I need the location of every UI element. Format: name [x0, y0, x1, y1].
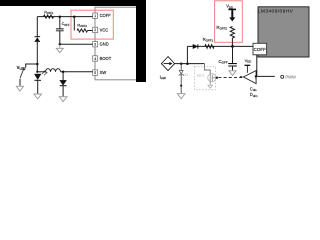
svg-text:LM3409/09HV: LM3409/09HV	[258, 9, 294, 15]
buffer/triangle PWM drive	[243, 71, 256, 84]
black border bar right	[136, 0, 146, 82]
black border bar top	[0, 0, 146, 6]
svg-text:4: 4	[94, 57, 96, 61]
svg-text:2: 2	[94, 28, 96, 32]
diode D1 (up)	[35, 36, 41, 38]
wire: dashed gate drive	[218, 77, 242, 79]
pin COFF box	[253, 43, 267, 55]
node: COFF pin net	[231, 45, 234, 48]
wire: left vertical	[36, 17, 38, 37]
ground (switch)	[16, 86, 23, 91]
terminal PWM	[281, 75, 284, 78]
current source ILED	[161, 57, 174, 71]
wire: ILED to FET	[175, 63, 205, 65]
capacitor COFF	[59, 17, 61, 29]
ground (Coff)	[59, 44, 61, 48]
svg-text:COFF: COFF	[254, 47, 266, 52]
capacitor COFF (right)	[232, 46, 234, 63]
svg-text:ROFF1: ROFF1	[44, 10, 54, 15]
wire: VLED to inductor branch	[36, 64, 38, 72]
node VLED	[36, 63, 39, 66]
node: FET gate	[216, 77, 218, 79]
ic body U1	[95, 7, 145, 80]
node: up-branch tap	[186, 62, 189, 64]
resistor ROFF2 (right)	[230, 27, 234, 39]
svg-text:ROFF1: ROFF1	[203, 37, 214, 43]
svg-text:ILED: ILED	[160, 74, 167, 80]
resistor ROFF1	[44, 15, 54, 18]
LED D2 (down)	[34, 74, 41, 80]
pin 3 GND	[93, 42, 98, 47]
svg-text:5: 5	[94, 71, 96, 75]
pin 2 VCC	[93, 27, 98, 32]
FET dashed box	[195, 67, 216, 90]
ground (LED)	[34, 94, 42, 99]
wire: top net to pin 1 COFF	[37, 16, 93, 18]
node: buffer output	[255, 75, 257, 77]
svg-text:COFF: COFF	[100, 13, 112, 18]
diode D3 (down)	[62, 72, 64, 80]
svg-text:COFF: COFF	[62, 22, 70, 27]
pin 5 SW	[93, 70, 98, 75]
svg-text:FET: FET	[197, 73, 205, 78]
resistor ROFF2	[73, 17, 75, 31]
svg-text:COFF: COFF	[219, 59, 228, 65]
zener D5	[180, 64, 182, 70]
wire: GND rail to pin 3	[60, 43, 93, 45]
svg-text:VCC: VCC	[100, 27, 109, 32]
ground (Coff right)	[229, 71, 236, 76]
node: SW net junction	[62, 71, 65, 74]
diode D4 (right)	[193, 44, 198, 49]
svg-text:ROFF2: ROFF2	[216, 25, 227, 31]
node: ROFF2 tap	[73, 15, 76, 18]
resistor ROFF1 (right)	[205, 45, 214, 49]
pin 4 BOOT	[93, 56, 98, 61]
svg-text:BOOT: BOOT	[100, 56, 112, 61]
svg-text:PWM: PWM	[285, 75, 296, 80]
wire: COFF net	[187, 45, 253, 47]
ground (zener)	[177, 94, 185, 99]
arrowhead into buffer	[240, 76, 243, 79]
switch S1	[23, 68, 25, 70]
transistor Q1 (FET, gray)	[205, 64, 211, 74]
wire: COFF pin to buffer	[256, 55, 258, 77]
svg-text:GND: GND	[100, 42, 109, 47]
node: zener gnd	[180, 85, 182, 87]
pin 1 COFF	[93, 13, 98, 18]
LED arrows	[42, 71, 47, 75]
svg-text:Z1: Z1	[184, 73, 188, 77]
wire: VLED to switch	[26, 64, 38, 68]
svg-text:Ddim: Ddim	[250, 92, 258, 98]
chip LM3409/09HV	[258, 7, 309, 57]
wire: to PWM terminal	[256, 75, 275, 77]
node: COFF net junction (Coff tap)	[59, 15, 62, 18]
svg-text:VDD: VDD	[226, 4, 233, 10]
node: zener tap	[180, 62, 183, 64]
svg-text:3: 3	[94, 43, 96, 47]
highlight box (red) right	[215, 1, 243, 43]
ground (D3)	[59, 97, 67, 102]
inductor L1	[37, 71, 45, 73]
node: Coff/GND rail junction	[59, 43, 62, 46]
node: inductor branch	[36, 71, 38, 73]
svg-text:1: 1	[94, 14, 96, 18]
svg-text:SW: SW	[100, 70, 107, 75]
highlight box (red) left	[71, 10, 113, 39]
